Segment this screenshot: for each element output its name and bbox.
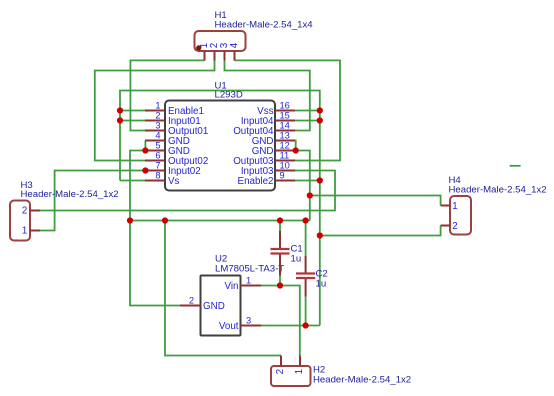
wire rail to H2.2 (165, 221, 281, 356)
capacitor C2 plate 1 (296, 272, 315, 274)
U1 pin 15 stub (275, 120, 295, 122)
svg-text:GND: GND (203, 301, 225, 312)
svg-text:14: 14 (280, 121, 290, 131)
svg-text:Header-Male-2.54_1x2: Header-Male-2.54_1x2 (21, 189, 119, 200)
header H4 body (450, 196, 471, 235)
svg-text:1: 1 (155, 101, 160, 111)
junction pin4-pin5 (142, 147, 148, 153)
svg-text:7: 7 (155, 161, 160, 171)
junction Vin-C1 (277, 282, 283, 288)
header H3 pin 2 stub (30, 210, 40, 212)
svg-text:16: 16 (280, 101, 290, 111)
header H3 body (10, 201, 30, 241)
wire bus to U1 pin1 (120, 110, 145, 112)
svg-text:1: 1 (294, 369, 305, 374)
svg-text:1: 1 (452, 201, 457, 212)
wire rail to C2 (305, 221, 307, 257)
svg-text:2: 2 (189, 296, 194, 306)
U1 pin 9 stub (275, 180, 295, 182)
svg-text:9: 9 (280, 171, 285, 181)
wire C1 to Vin wire (279, 276, 281, 286)
U1 pin 5 stub (145, 150, 165, 152)
U1 pin 13 stub (275, 140, 295, 142)
junction rail-C1 (277, 217, 283, 223)
capacitor C1 plate 2 (271, 252, 290, 254)
wire H1.1 to U1.3 (130, 60, 204, 130)
header H2 body (271, 366, 311, 386)
U1 pin 16 stub (275, 110, 295, 112)
header H1 pin 1 stub (204, 51, 206, 61)
wire C2 to Vout wire (305, 297, 307, 326)
svg-text:4: 4 (229, 42, 240, 48)
wire 5V to H4.2 (320, 226, 441, 236)
capacitor C2 bottom lead (305, 279, 307, 297)
wire gnd node to H4.1 (310, 196, 441, 206)
junction pin12-pin13 (293, 147, 299, 153)
wire stub segment (510, 165, 521, 167)
svg-text:8: 8 (155, 171, 160, 181)
svg-text:Vout: Vout (219, 321, 239, 332)
wire GND rail (130, 220, 310, 222)
U1 pin 6 stub (145, 160, 165, 162)
capacitor C1 plate 1 (271, 248, 290, 250)
wire bus x120 vertical (120, 91, 320, 326)
wire Vout of U2 to 5V rail (259, 325, 320, 327)
wire U1.16 to 5V rail (295, 110, 320, 112)
junction rail-C2 (303, 217, 309, 223)
junction rail-x130 (127, 217, 133, 223)
junction gnd-node (307, 192, 313, 198)
U1 pin 3 stub (145, 130, 165, 132)
U1 pin 1 stub (145, 110, 165, 112)
U1 pin 10 stub (275, 170, 295, 172)
junction at bus-pin1 (117, 107, 123, 113)
wire U1.5 down to rail (130, 151, 146, 221)
svg-text:1: 1 (22, 226, 27, 237)
junction 5V-H4.2 (317, 232, 323, 238)
wire U1.13 jog down (294, 141, 297, 151)
junction 5V-pin16 (317, 107, 323, 113)
capacitor C1 bottom lead (279, 255, 281, 276)
U2 pin 3 stub (241, 325, 262, 327)
junction rail-x165 (162, 217, 168, 223)
header H1 pin 3 stub (224, 51, 226, 61)
svg-text:3: 3 (155, 121, 160, 131)
U1 pin 7 stub (145, 170, 165, 172)
U1 pin 12 stub (275, 150, 295, 152)
U1 pin 11 stub (275, 160, 295, 162)
svg-text:4: 4 (155, 131, 160, 141)
svg-text:12: 12 (280, 141, 290, 151)
junction pin7 (142, 167, 148, 173)
svg-text:Header-Male-2.54_1x2: Header-Male-2.54_1x2 (449, 184, 547, 195)
regulator U2 body (201, 276, 241, 336)
svg-text:2: 2 (155, 111, 160, 121)
svg-text:15: 15 (280, 111, 290, 121)
svg-text:13: 13 (280, 131, 290, 141)
svg-text:2: 2 (452, 221, 457, 232)
U1 pin 2 stub (145, 120, 165, 122)
header H2 pin 1 stub (299, 356, 301, 367)
svg-text:1u: 1u (291, 254, 302, 265)
U1 pin 14 stub (275, 130, 295, 132)
header H3 pin 1 stub (30, 230, 40, 232)
header H2 pin 2 stub (280, 356, 282, 367)
svg-text:Header-Male-2.54_1x2: Header-Male-2.54_1x2 (313, 375, 411, 386)
wire H1.2 to U1.6 (95, 60, 215, 160)
junction 5V-pin9 (317, 177, 323, 183)
svg-text:2: 2 (275, 369, 286, 374)
U2 pin 1 stub (241, 285, 262, 287)
svg-text:1: 1 (246, 276, 251, 286)
header H1 pin 4 stub (234, 51, 236, 61)
wire U1.7 to H3.1 (40, 171, 146, 231)
capacitor C2 plate 2 (296, 277, 315, 279)
header H1 pin-1 marker dot (196, 45, 201, 50)
wire U1.15 to 5V rail (295, 120, 320, 122)
svg-text:LM7805L-TA3-T: LM7805L-TA3-T (215, 264, 284, 275)
svg-text:3: 3 (246, 316, 251, 326)
svg-text:1u: 1u (316, 279, 327, 290)
svg-text:6: 6 (155, 151, 160, 161)
wire H3.2 to U1.10 (40, 171, 335, 211)
svg-text:5: 5 (155, 141, 160, 151)
svg-text:2: 2 (22, 206, 27, 217)
wire H1.3 to U1.14 (225, 60, 310, 130)
junction at bus-pin2 (117, 117, 123, 123)
wire U1.9 to 5V rail (295, 180, 320, 182)
junction 5V-pin15 (317, 117, 323, 123)
op-amp U1 body (165, 101, 275, 191)
header H1 pin 2 stub (214, 51, 216, 61)
junction Vout-C2 (303, 322, 309, 328)
wire U1.4 jog down (144, 141, 146, 151)
capacitor C1 top lead (279, 231, 281, 248)
svg-text:Vs: Vs (168, 176, 180, 187)
wire bus to U1 pin2 (120, 120, 146, 122)
wire rail to U2.GND (130, 221, 180, 306)
U1 pin 4 stub (145, 140, 165, 142)
header H4 pin 1 stub (441, 205, 450, 207)
svg-text:Enable2: Enable2 (238, 176, 274, 187)
svg-text:10: 10 (280, 161, 290, 171)
svg-text:Vin: Vin (225, 281, 239, 292)
wire U1.12 down to rail (296, 151, 310, 221)
svg-text:Header-Male-2.54_1x4: Header-Male-2.54_1x4 (215, 20, 314, 31)
wire U2.Vin to H2.1 (261, 286, 300, 356)
wire H1.4 to U1.11 (235, 60, 341, 160)
header H4 pin 2 stub (441, 225, 450, 227)
capacitor C2 top lead (305, 256, 307, 273)
svg-text:L293D: L293D (215, 90, 243, 101)
svg-text:11: 11 (280, 151, 290, 161)
wire rail to C1 (279, 221, 281, 232)
wire bus to U1 pin8 (120, 180, 145, 182)
U1 pin 8 stub (145, 180, 165, 182)
U2 pin 2 stub (180, 305, 201, 307)
header H1 body (195, 31, 246, 51)
